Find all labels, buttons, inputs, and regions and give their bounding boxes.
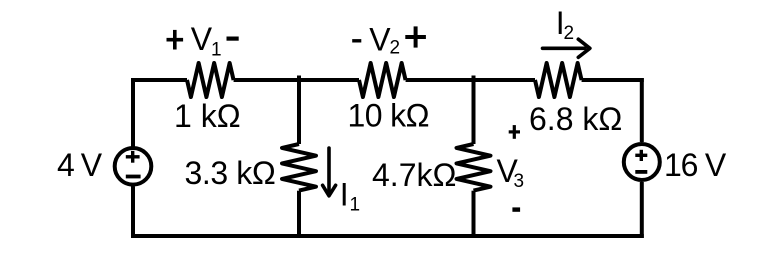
wire right branch lower [640,182,644,238]
polarity plus of V3 [509,125,520,139]
wire left branch upper [131,78,135,147]
resistor R2 (10 kOhm) [359,63,406,97]
wire middle branch 2 lower [472,191,476,238]
polarity minus of V2 [352,39,361,42]
polarity plus of V2 [405,26,426,47]
wire top rail right segment [582,78,644,82]
minus sign inside source VS2 [635,170,647,174]
voltage source VS2 circle (16 V) [624,144,660,180]
resistor R3 (6.8 kOhm) [535,63,582,97]
svg-text:I: I [340,177,349,213]
svg-text:V: V [191,21,213,57]
wire middle branch 1 upper [297,76,301,145]
wire middle branch 1 lower [297,191,301,238]
svg-text:1: 1 [350,195,361,216]
current arrow I1 [323,148,336,196]
svg-text:3: 3 [514,171,525,192]
voltage source VS1 circle (4 V) [115,148,152,185]
wire bottom rail [131,234,644,238]
minus sign inside source VS1 [126,175,141,179]
plus sign inside source VS2 [635,150,647,161]
svg-text:1 kΩ: 1 kΩ [174,98,241,134]
polarity minus of V3 [512,207,520,211]
wire top rail between R1 and R2 [234,78,359,82]
svg-text:16 V: 16 V [664,147,727,183]
polarity plus of V1 [167,30,184,50]
resistor R1 (1 kOhm) [187,63,234,97]
svg-text:2: 2 [564,23,575,44]
svg-text:6.8 kΩ: 6.8 kΩ [529,101,622,137]
svg-text:4.7kΩ: 4.7kΩ [372,157,456,193]
resistor R5 (4.7 kOhm, vertical) [457,144,491,191]
svg-text:V: V [369,22,391,58]
svg-text:10 kΩ: 10 kΩ [348,98,429,134]
current arrow I2 [543,39,590,57]
wire top rail left segment [131,78,187,82]
svg-text:4 V: 4 V [57,147,103,183]
polarity minus of V1 [227,36,239,40]
wire left branch lower [131,186,135,238]
svg-text:1: 1 [211,40,222,61]
svg-text:3.3 kΩ: 3.3 kΩ [185,155,276,191]
svg-text:2: 2 [390,38,401,59]
wire middle branch 2 upper [472,76,476,145]
plus sign inside source VS1 [126,151,140,163]
wire right branch upper [640,78,644,142]
wire top rail between R2 and R3 [406,78,535,82]
resistor R4 (3.3 kOhm, vertical) [282,144,316,191]
